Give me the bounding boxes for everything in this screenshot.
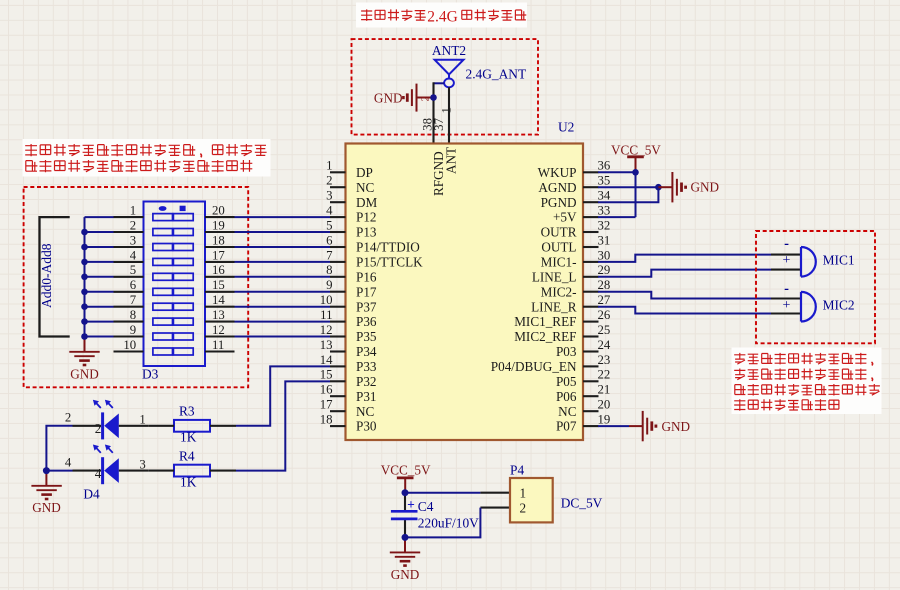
MIC2 positive pin stub <box>771 312 801 314</box>
svg-text:GND: GND <box>391 567 420 582</box>
pin number 13 <box>320 338 333 352</box>
DIP pin number 3 <box>130 233 136 247</box>
pin name P33 <box>356 359 377 374</box>
label DC_5V <box>561 496 603 511</box>
pin number 1 <box>326 159 332 173</box>
LED D4 element 1 pin stubs <box>73 425 149 427</box>
pin number 2 (LED cathode) <box>95 421 102 436</box>
svg-text:+: + <box>783 253 791 268</box>
wire DIP row 1 to bus <box>85 216 114 218</box>
pin name P07 <box>556 419 577 434</box>
svg-text:16: 16 <box>320 383 333 397</box>
pin 27 stub (LINE_R) <box>583 306 599 308</box>
pin 7 stub (P15/TTCLK) <box>330 261 346 263</box>
DIP switch D3 body <box>144 202 206 367</box>
svg-text:OUTR: OUTR <box>541 225 577 240</box>
pin name MIC2_REF <box>514 329 576 344</box>
antenna shield pin number 2 <box>421 96 432 101</box>
junction node antenna/RFGND <box>430 94 437 101</box>
junction bus row 9 <box>81 333 88 340</box>
pin 36 stub (WKUP) <box>583 171 599 173</box>
DIP pin 14 stub (right row 7) <box>205 306 235 308</box>
pin 13 stub (P34) <box>330 350 346 352</box>
bracket Add0-Add8 <box>40 217 70 336</box>
svg-text:11: 11 <box>212 338 224 352</box>
svg-text:P36: P36 <box>356 314 377 329</box>
pin 34 stub (PGND) <box>583 201 599 203</box>
DIP pin 13 stub (right row 8) <box>205 321 235 323</box>
wire DIP row 5 to bus <box>85 276 114 278</box>
svg-text:6: 6 <box>130 278 137 292</box>
svg-text:29: 29 <box>598 263 611 277</box>
pin number 18 <box>320 413 333 427</box>
DIP pin number 16 <box>212 263 225 277</box>
pin 32 stub (OUTR) <box>583 231 599 233</box>
svg-text:PGND: PGND <box>541 195 577 210</box>
power symbol VCC_5V (bottom) <box>397 478 414 493</box>
label C4 <box>418 499 434 514</box>
label D4 <box>83 486 100 501</box>
svg-text:20: 20 <box>212 204 225 218</box>
pin name MIC1- <box>541 255 577 270</box>
label VCC_5V (top right) <box>611 142 661 157</box>
pin 12 stub (P35) <box>330 335 346 337</box>
svg-text:AGND: AGND <box>538 180 576 195</box>
wire pin30 MIC1- to MIC1 negative <box>598 255 771 262</box>
svg-text:13: 13 <box>320 338 333 352</box>
pin name P06 <box>556 389 577 404</box>
pin number 10 <box>320 293 333 307</box>
DIP pin 9 stub (left row 9) <box>114 335 144 337</box>
pin number 3 (LED anode) <box>139 458 145 472</box>
svg-text:23: 23 <box>598 353 611 367</box>
connector P4 body <box>510 478 553 522</box>
pin number 36 <box>598 159 611 173</box>
junction bus row 3 <box>81 244 88 251</box>
wire DIP pin 19 to U2 pin 5 <box>235 231 331 233</box>
ground symbol at D4 <box>31 471 61 499</box>
microphone MIC1 symbol <box>801 247 816 277</box>
svg-text:2.4G_ANT: 2.4G_ANT <box>466 66 527 81</box>
wire pin27 LINE_R to MIC2 positive <box>598 307 771 314</box>
pin name P30 <box>356 419 377 434</box>
svg-text:1: 1 <box>139 413 145 427</box>
pin number 3 <box>326 189 332 203</box>
label MIC2 <box>823 298 855 313</box>
svg-text:2: 2 <box>130 218 136 232</box>
wire pin35 AGND to ground <box>598 186 658 188</box>
wire DIP pin 17 to U2 pin 7 <box>235 261 331 263</box>
dashed box around antenna <box>352 39 539 135</box>
svg-text:DP: DP <box>356 165 373 180</box>
svg-text:7: 7 <box>130 293 137 307</box>
wire address bus vertical <box>84 217 86 340</box>
svg-text:22: 22 <box>598 368 611 382</box>
junction C4 bottom <box>402 534 409 541</box>
svg-text:4: 4 <box>65 455 72 469</box>
pin number 25 <box>598 323 611 337</box>
svg-text:20: 20 <box>598 398 611 412</box>
DIP switch element row 1 <box>153 214 193 221</box>
pin number 29 <box>598 263 611 277</box>
DIP pin number 2 <box>130 218 136 232</box>
pin 25 stub (MIC2_REF) <box>583 335 599 337</box>
svg-text:4: 4 <box>95 466 102 481</box>
pin number 1 (LED anode) <box>139 413 145 427</box>
wire pin34 PGND up to pin35 net <box>598 187 658 202</box>
DIP pin number 11 <box>212 338 224 352</box>
svg-text:VCC_5V: VCC_5V <box>381 463 431 478</box>
DIP pin number 13 <box>212 308 225 322</box>
wire LED1 cathode to LED2 cathode <box>46 426 72 471</box>
pin name LINE_R <box>531 299 577 314</box>
pin 8 stub (P16) <box>330 276 346 278</box>
DIP pin number 14 <box>212 293 225 307</box>
svg-text:3: 3 <box>139 458 145 472</box>
svg-text:MIC2_REF: MIC2_REF <box>514 329 576 344</box>
pin name P13 <box>356 225 377 240</box>
svg-text:17: 17 <box>320 398 333 412</box>
wire DIP row 6 to bus <box>85 291 114 293</box>
wire DIP row 3 to bus <box>85 246 114 248</box>
svg-text:C4: C4 <box>418 499 434 514</box>
label R3 <box>179 404 195 419</box>
svg-text:+: + <box>407 497 415 512</box>
label R4 <box>179 449 195 464</box>
wire DIP pin 12 to U2 pin 12 <box>235 336 331 338</box>
P4 pin 2 stub <box>480 507 510 509</box>
label GND (C4) <box>391 567 420 582</box>
pin 4 stub (P12) <box>330 216 346 218</box>
pin name OUTR <box>541 225 577 240</box>
wire pin19 P07 to ground <box>598 425 629 427</box>
junction bus row 4 <box>81 259 88 266</box>
svg-text:GND: GND <box>32 500 61 515</box>
junction bus row 6 <box>81 289 88 296</box>
svg-text:MIC2-: MIC2- <box>541 284 577 299</box>
pin name P12 <box>356 210 377 225</box>
DIP pin number 17 <box>212 248 225 262</box>
MIC1 minus label <box>784 236 789 252</box>
DIP switch element row 3 <box>153 244 193 251</box>
svg-text:MIC2: MIC2 <box>823 298 855 313</box>
label P4 <box>510 463 524 478</box>
pin 20 stub (NC) <box>583 410 599 412</box>
svg-text:DM: DM <box>356 195 378 210</box>
wire DIP row 7 to bus <box>85 306 114 308</box>
svg-text:14: 14 <box>212 293 225 307</box>
pin 38 vertical line (RFGND) <box>432 82 434 143</box>
pin 28 stub (MIC2-) <box>583 291 599 293</box>
svg-text:15: 15 <box>212 278 225 292</box>
pin number 16 <box>320 383 333 397</box>
pin 29 stub (LINE_L) <box>583 276 599 278</box>
pin number 8 <box>326 263 332 277</box>
DIP pin number 8 <box>130 308 136 322</box>
pin number 38 <box>421 118 435 131</box>
svg-text:ANT2: ANT2 <box>432 43 466 58</box>
DIP pin number 6 <box>130 278 137 292</box>
MIC1 plus label <box>783 253 791 268</box>
microphone MIC2 symbol <box>801 292 816 322</box>
pin 31 stub (OUTL) <box>583 246 599 248</box>
svg-text:ANT: ANT <box>444 147 459 174</box>
pin 24 stub (P03) <box>583 350 599 352</box>
DIP position indicator mark <box>180 206 186 211</box>
wire P4 pin2 to ground node <box>405 508 480 538</box>
pin name P35 <box>356 329 377 344</box>
pin name NC <box>356 180 375 195</box>
pin number 12 <box>320 323 333 337</box>
svg-text:12: 12 <box>320 323 333 337</box>
wire pin14 P33 down to R3 <box>236 366 330 425</box>
pin name AGND <box>538 180 576 195</box>
capacitor C4 <box>391 493 418 538</box>
pin 6 stub (P14/TTDIO) <box>330 246 346 248</box>
LED D4 element 1 <box>93 400 119 440</box>
pin 19 stub (P07) <box>583 425 599 427</box>
svg-text:P17: P17 <box>356 284 377 299</box>
pin number 22 <box>598 368 611 382</box>
pin number 24 <box>598 338 611 352</box>
pin name WKUP <box>538 165 577 180</box>
svg-text:-: - <box>784 281 789 297</box>
svg-text:1: 1 <box>440 107 454 113</box>
DIP ON indicator oval <box>159 206 167 211</box>
wire pin28 MIC2- to MIC2 negative <box>598 292 771 299</box>
pin name P05 <box>556 374 577 389</box>
svg-text:7: 7 <box>326 248 333 262</box>
junction bus row 8 <box>81 318 88 325</box>
pin number 30 <box>598 248 611 262</box>
svg-text:8: 8 <box>326 263 332 277</box>
DIP pin 19 stub (right row 2) <box>205 231 235 233</box>
MIC1 positive pin stub <box>771 269 801 271</box>
DIP pin number 12 <box>212 323 225 337</box>
svg-text:2.4G: 2.4G <box>427 8 458 25</box>
svg-text:VCC_5V: VCC_5V <box>611 142 661 157</box>
pin name RFGND (pin 38, rotated) <box>431 151 446 196</box>
MIC2 plus label <box>783 298 791 313</box>
pin name DM <box>356 195 378 210</box>
pin name P15/TTCLK <box>356 255 423 270</box>
svg-text:1K: 1K <box>180 430 197 445</box>
pin 18 stub (P30) <box>330 425 346 427</box>
wire antenna feed to RFGND net <box>434 82 445 84</box>
pin name P36 <box>356 314 377 329</box>
DIP switch element row 6 <box>153 288 193 295</box>
P4 pin number 1 <box>520 486 527 501</box>
label GND (P07) <box>662 419 691 434</box>
pin 5 stub (P13) <box>330 231 346 233</box>
pin 1 stub (DP) <box>330 171 346 173</box>
svg-text:6: 6 <box>326 233 333 247</box>
label D3 <box>142 367 159 382</box>
svg-text:-: - <box>784 236 789 252</box>
DIP switch element row 9 <box>153 333 193 340</box>
svg-text:NC: NC <box>558 404 577 419</box>
svg-text:P35: P35 <box>356 329 377 344</box>
svg-text:12: 12 <box>212 323 225 337</box>
svg-text:30: 30 <box>598 248 611 262</box>
pin name P32 <box>356 374 377 389</box>
DIP switch element row 7 <box>153 303 193 310</box>
pin name P14/TTDIO <box>356 240 420 255</box>
pin number 35 <box>598 174 611 188</box>
pin name LINE_L <box>532 269 577 284</box>
svg-text:2: 2 <box>326 174 332 188</box>
pin number 23 <box>598 353 611 367</box>
DIP switch element row 5 <box>153 273 193 280</box>
pin name OUTL <box>541 240 576 255</box>
DIP pin number 9 <box>130 323 136 337</box>
MIC1 negative pin stub <box>771 254 801 256</box>
svg-text:DC_5V: DC_5V <box>561 496 603 511</box>
wire DIP row 4 to bus <box>85 261 114 263</box>
dashed box around microphones <box>756 231 875 343</box>
svg-text:34: 34 <box>598 189 611 203</box>
svg-text:P06: P06 <box>556 389 577 404</box>
label ANT2 <box>432 43 466 58</box>
pin 9 stub (P17) <box>330 291 346 293</box>
wire DIP pin 16 to U2 pin 8 <box>235 276 331 278</box>
DIP pin 1 stub (left row 1) <box>114 216 144 218</box>
svg-text:D3: D3 <box>142 367 159 382</box>
svg-text:10: 10 <box>320 293 333 307</box>
pin name P16 <box>356 269 377 284</box>
pin 10 stub (P37) <box>330 306 346 308</box>
label VCC_5V (bottom) <box>381 463 431 478</box>
svg-text:LINE_R: LINE_R <box>531 299 577 314</box>
DIP pin number 18 <box>212 233 225 247</box>
pin name DP <box>356 165 373 180</box>
pin 2 stub (NC) <box>330 186 346 188</box>
pin name ANT (pin 37, rotated) <box>444 147 459 174</box>
DIP pin 18 stub (right row 3) <box>205 246 235 248</box>
DIP pin 12 stub (right row 9) <box>205 335 235 337</box>
DIP pin number 15 <box>212 278 225 292</box>
svg-text:11: 11 <box>320 308 332 322</box>
pin name P34 <box>356 344 377 359</box>
svg-text:U2: U2 <box>558 120 574 135</box>
P4 pin 1 stub <box>480 492 510 494</box>
pin number 7 <box>326 248 333 262</box>
svg-text:1: 1 <box>326 159 332 173</box>
pin 23 stub (P04/DBUG_EN) <box>583 365 599 367</box>
wire DIP pin 18 to U2 pin 6 <box>235 246 331 248</box>
junction bus row 7 <box>81 303 88 310</box>
C4 plus sign <box>407 497 415 512</box>
LED D4 element 2 <box>93 445 119 485</box>
pin number 32 <box>598 218 611 232</box>
svg-text:19: 19 <box>598 413 611 427</box>
svg-text:5: 5 <box>326 218 332 232</box>
svg-text:MIC1-: MIC1- <box>541 255 577 270</box>
pin 15 stub (P32) <box>330 380 346 382</box>
DIP pin 8 stub (left row 8) <box>114 321 144 323</box>
svg-text:NC: NC <box>356 404 375 419</box>
svg-text:+: + <box>783 298 791 313</box>
wire DIP row 2 to bus <box>85 231 114 233</box>
pin number 28 <box>598 278 611 292</box>
svg-text:1: 1 <box>520 486 527 501</box>
svg-text:36: 36 <box>598 159 611 173</box>
pin number 11 <box>320 308 332 322</box>
pin 16 stub (P31) <box>330 395 346 397</box>
svg-text:16: 16 <box>212 263 225 277</box>
pin number 4 (LED cathode) <box>95 466 102 481</box>
wire DIP row 9 to bus <box>85 336 114 338</box>
pin 14 stub (P33) <box>330 365 346 367</box>
pin number 19 <box>598 413 611 427</box>
pin 33 stub (+5V) <box>583 216 599 218</box>
DIP pin 5 stub (left row 5) <box>114 276 144 278</box>
junction AGND/PGND <box>655 184 662 191</box>
label GND (D4) <box>32 500 61 515</box>
DIP switch element row 4 <box>153 258 193 265</box>
svg-text:P4: P4 <box>510 463 524 478</box>
pin number 17 <box>320 398 333 412</box>
label GND (right top) <box>691 180 720 195</box>
label GND (DIP) <box>70 366 99 381</box>
wire VCC vertical to pin33 <box>635 172 637 217</box>
svg-text:3: 3 <box>326 189 332 203</box>
svg-text:P07: P07 <box>556 419 577 434</box>
DIP pin 6 stub (left row 6) <box>114 291 144 293</box>
dashed box around DIP switch <box>24 187 249 387</box>
svg-text:P30: P30 <box>356 419 377 434</box>
pin number 9 <box>326 278 332 292</box>
pin number 14 <box>320 353 333 367</box>
wire DIP pin 13 to U2 pin 11 <box>235 321 331 323</box>
pin 11 stub (P36) <box>330 321 346 323</box>
pin name P04/DBUG_EN <box>491 359 577 374</box>
pin name MIC2- <box>541 284 577 299</box>
pin 37 vertical line (ANT) <box>448 87 450 143</box>
pin name NC <box>558 404 577 419</box>
pin name P17 <box>356 284 377 299</box>
junction VCC/pin36 <box>632 169 639 176</box>
DIP pin 20 stub (right row 1) <box>205 216 235 218</box>
svg-text:1K: 1K <box>180 475 197 490</box>
DIP pin 4 stub (left row 4) <box>114 261 144 263</box>
svg-text:P05: P05 <box>556 374 577 389</box>
svg-text:P16: P16 <box>356 269 377 284</box>
wire pin15 P32 down to R4 <box>236 381 330 470</box>
DIP pin number 7 <box>130 293 137 307</box>
junction LED ground node <box>43 467 50 474</box>
DIP switch element row 8 <box>153 318 193 325</box>
junction bus row 2 <box>81 229 88 236</box>
junction VCC/C4/P4 <box>402 489 409 496</box>
pin number 4 <box>326 204 333 218</box>
svg-text:P33: P33 <box>356 359 377 374</box>
DIP pin number 10 <box>123 338 136 352</box>
label 2.4G_ANT <box>466 66 527 81</box>
svg-text:P03: P03 <box>556 344 577 359</box>
svg-text:5: 5 <box>130 263 136 277</box>
svg-text:17: 17 <box>212 248 225 262</box>
DIP pin 15 stub (right row 6) <box>205 291 235 293</box>
svg-text:37: 37 <box>432 117 446 130</box>
svg-text:3: 3 <box>130 233 136 247</box>
svg-text:WKUP: WKUP <box>538 165 577 180</box>
svg-text:4: 4 <box>326 204 333 218</box>
LED D4 element 2 pin stubs <box>73 470 149 472</box>
svg-text:P15/TTCLK: P15/TTCLK <box>356 255 423 270</box>
svg-text:15: 15 <box>320 368 333 382</box>
value 220uF/10V <box>418 516 479 531</box>
